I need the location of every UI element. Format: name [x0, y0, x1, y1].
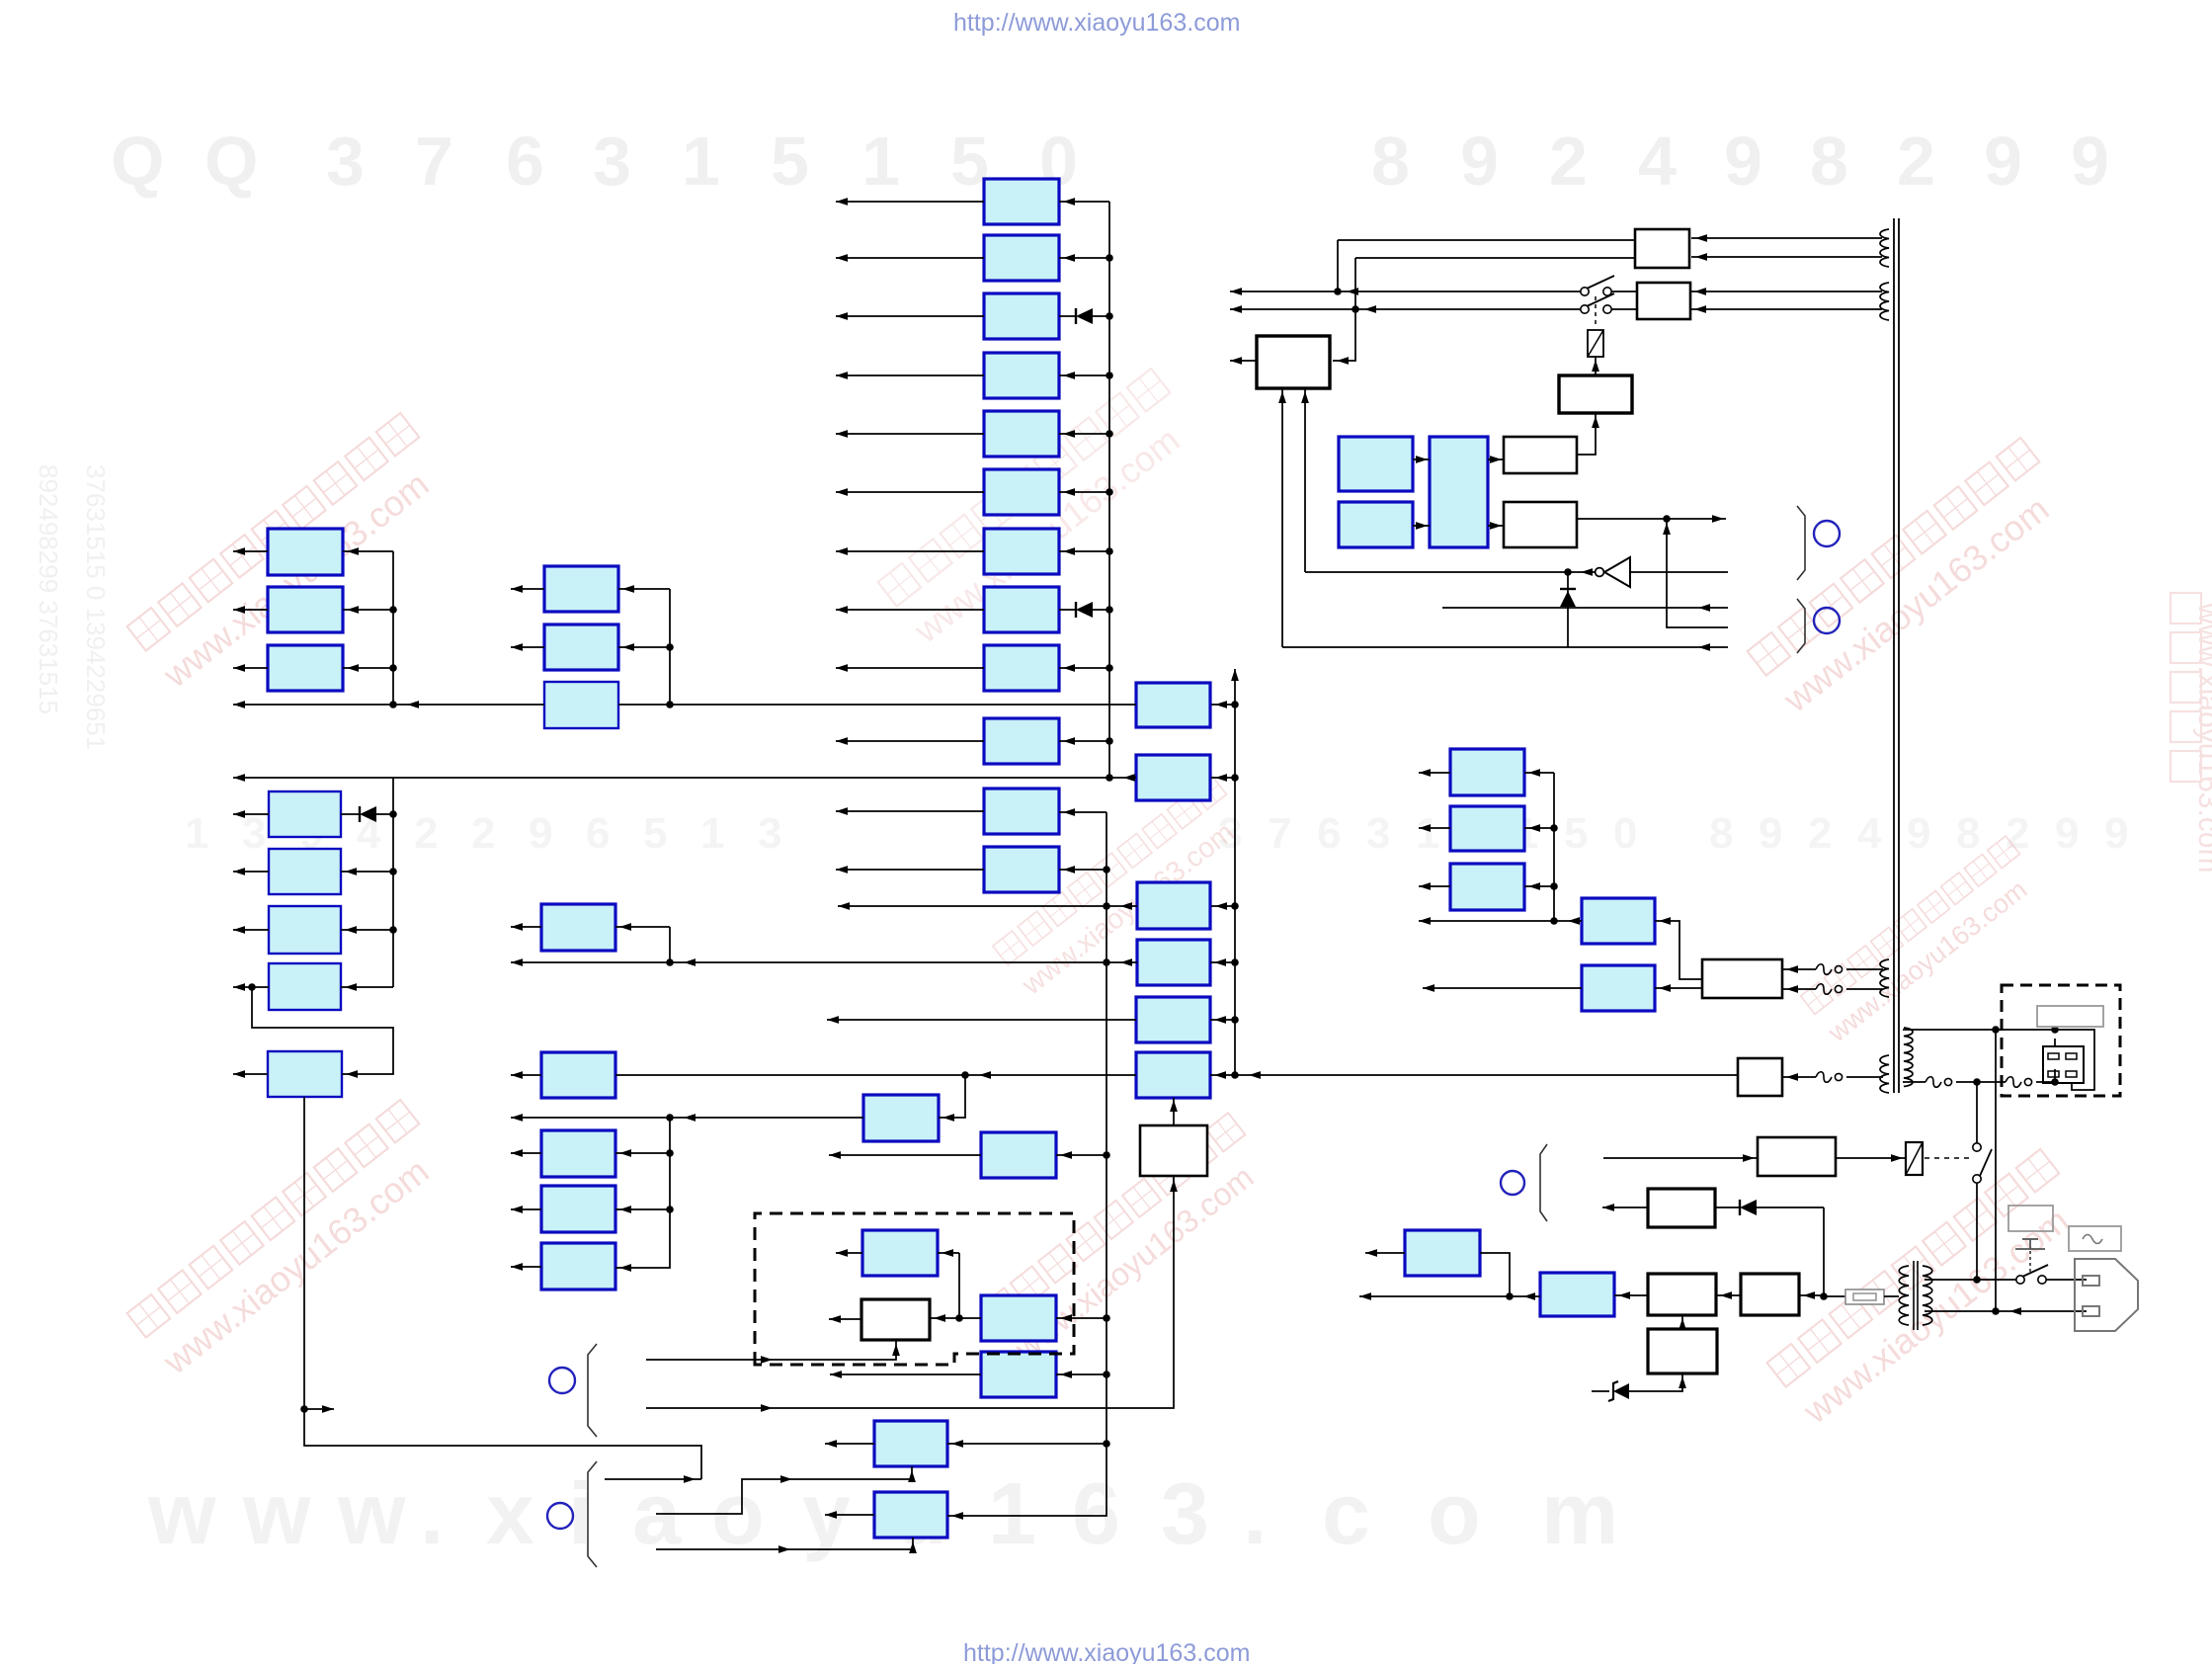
wire B input y261 — [1059, 257, 1109, 259]
arrowhead Y2 feed flow — [778, 1545, 790, 1553]
connector circle con4 — [547, 1503, 573, 1529]
wire R1 input — [618, 588, 670, 590]
svg-text:.: . — [1243, 1464, 1267, 1562]
wire F1 line a1 — [1782, 968, 1816, 970]
arrowhead TR2 in b — [1694, 305, 1706, 313]
plug ACP — [2075, 1259, 2138, 1331]
wire W1 output — [829, 1318, 861, 1320]
arrowhead W1 out — [829, 1315, 841, 1323]
wire line261 — [1355, 257, 1635, 259]
arrowhead TB in — [1592, 416, 1599, 428]
box D1 — [1648, 1189, 1715, 1227]
wire B11 output — [836, 810, 984, 812]
block Y2 — [874, 1492, 947, 1538]
wire B input y380 — [1059, 374, 1109, 376]
diode D-B3 — [1076, 308, 1093, 324]
wire G1-G2 — [1716, 1294, 1741, 1296]
wire bus1 left — [233, 704, 544, 706]
arrowhead F1 in b — [1786, 985, 1798, 993]
block N6 — [1136, 1052, 1210, 1098]
junction bus4-V2 — [1103, 958, 1110, 966]
transformer core T1 — [1894, 218, 1899, 1093]
svg-text:4: 4 — [1857, 809, 1882, 858]
arrowhead busM flow — [684, 1114, 696, 1122]
connector circle con2 — [1814, 608, 1840, 633]
wire bus4 — [511, 961, 1137, 963]
wire Q1 output — [829, 1154, 981, 1156]
arrowhead T3 in — [1528, 882, 1540, 890]
wire B11 input — [1059, 811, 1106, 813]
wire G2-V6 — [1799, 1294, 1824, 1296]
wire B10 output — [836, 740, 984, 742]
switch contact SW2 top — [1973, 1143, 1981, 1151]
connector circle con3 — [549, 1368, 575, 1393]
connector CN2 pin1 — [2048, 1053, 2059, 1059]
arrowhead Rb in — [1659, 984, 1671, 992]
wire N6-U1 link — [1173, 1098, 1175, 1125]
junction V1 y439 — [1106, 430, 1113, 438]
wire VT riser — [1553, 773, 1555, 921]
connector circle con1 — [1814, 521, 1840, 546]
arrowhead B in y498 — [1063, 488, 1075, 496]
arrowhead N6 bottom in — [1170, 1100, 1178, 1112]
connector CN2 pin3 — [2048, 1071, 2059, 1077]
wire N3 right link — [1211, 905, 1235, 907]
wire S0 output — [1365, 1252, 1405, 1254]
junction W1 node — [955, 1314, 963, 1322]
svg-text:1: 1 — [1416, 809, 1439, 858]
svg-text:1: 1 — [861, 123, 900, 200]
wire Ra input link — [1655, 921, 1702, 979]
wire N1 right link — [1211, 704, 1235, 706]
wire B12 output — [836, 869, 984, 871]
svg-text:8: 8 — [1709, 809, 1733, 858]
wire busT — [1419, 920, 1582, 922]
wire G3-G1 link — [1681, 1315, 1683, 1329]
box WM — [1257, 336, 1330, 388]
junction V2-B12 — [1103, 866, 1110, 874]
junction V3-N3 — [1231, 902, 1239, 910]
junction V3-N4 — [1231, 958, 1239, 966]
wire SR feed riser — [939, 1075, 965, 1118]
junction V1 y498 — [1106, 488, 1113, 496]
arrowhead L1 in — [347, 547, 359, 555]
wire pri bottom c — [2036, 1069, 2055, 1082]
arrowhead S0 out — [1365, 1249, 1377, 1257]
wire Y2 output — [825, 1514, 874, 1516]
wire M2 output — [511, 1074, 541, 1076]
wire SW1b-TR2 — [1611, 308, 1637, 310]
wire RL output — [1836, 1157, 1906, 1159]
block B7 — [984, 529, 1059, 574]
arrowhead WA in — [1490, 456, 1502, 463]
arrowhead C2 in a — [1416, 456, 1428, 463]
wire V7 drop — [1995, 1030, 1997, 1311]
arrowhead B in y380 — [1063, 372, 1075, 379]
block L6 — [269, 906, 341, 954]
arrowhead T3 out — [1419, 882, 1431, 890]
arrowhead CC in — [942, 1249, 953, 1257]
arrowhead X2 in — [1060, 1371, 1072, 1378]
wire R2 input — [618, 646, 670, 648]
arrowhead S1 in — [1618, 1291, 1630, 1299]
wire S1-G1 — [1614, 1294, 1648, 1296]
arrowhead T2 out — [1419, 824, 1431, 832]
block N3 — [1137, 882, 1210, 929]
wire CN2 wire2 — [2072, 1050, 2094, 1090]
wire F1 line b2 — [1846, 988, 1883, 990]
arrowhead Y2 bottom in — [909, 1541, 917, 1553]
wire zener line — [1592, 1390, 1609, 1392]
wire T3 output — [1419, 885, 1450, 887]
block L2 — [268, 587, 343, 632]
wire D1 output — [1602, 1206, 1648, 1208]
wire diode drop — [1567, 572, 1569, 647]
connector pair pri fuse b — [2006, 1077, 2032, 1088]
arrowhead B in y439 — [1063, 430, 1075, 438]
arrowhead B in y558 — [1063, 547, 1075, 555]
wire VR riser — [669, 589, 671, 705]
box WB — [1504, 502, 1577, 547]
wire L4 input b — [376, 813, 393, 815]
arrowhead N1 in — [1215, 701, 1227, 708]
arrowhead Q1 in — [1060, 1151, 1072, 1159]
wire VM3 riser — [615, 1118, 670, 1268]
junction V6 node — [1820, 1292, 1828, 1300]
arrowhead V3 top — [1231, 669, 1239, 681]
arrowhead B10 out — [836, 737, 848, 745]
arrowhead R1 out — [511, 585, 523, 593]
arrowhead line313 end — [1230, 305, 1242, 313]
block M4 — [541, 1186, 615, 1232]
svg-text:9: 9 — [2071, 123, 2109, 200]
block M2 — [541, 1052, 615, 1098]
dashed enclosure PSU — [755, 1213, 1074, 1365]
winding T2 pri — [1899, 1266, 1909, 1325]
arrowhead B9 out — [836, 664, 848, 672]
junction V3-N1 — [1231, 701, 1239, 708]
wire bus5 right — [1210, 1074, 1738, 1076]
junction VR-bus1 — [666, 701, 674, 708]
svg-text:9: 9 — [1759, 809, 1782, 858]
arrowhead W1 feed flow — [761, 1356, 773, 1364]
arrowhead WM in b — [1301, 391, 1309, 403]
arrowhead M4 out — [511, 1206, 523, 1213]
arrowhead RL in — [1743, 1154, 1755, 1162]
arrowhead M1 in — [619, 923, 631, 931]
junction VL2-L5 — [389, 868, 397, 875]
switch contact SW2 bottom — [1973, 1175, 1981, 1183]
wire CC output — [836, 1252, 862, 1254]
arrowhead N3 in — [1215, 902, 1227, 910]
watermark vertical left-edge — [34, 464, 111, 750]
arrowhead busT end — [1419, 917, 1431, 925]
brace con3 — [588, 1344, 597, 1437]
box F2 — [1738, 1058, 1782, 1096]
brace con5 — [1540, 1144, 1547, 1221]
block R3 — [544, 682, 618, 728]
block M3 — [541, 1130, 615, 1177]
arrowhead B6 out — [836, 488, 848, 496]
watermark pink right-edge — [2171, 593, 2212, 873]
block N2 — [1136, 755, 1210, 800]
watermark digits mid-left — [185, 809, 781, 858]
arrowhead TR1 in a — [1695, 234, 1707, 242]
wire N2 right link — [1211, 777, 1235, 779]
junction VT-T3 — [1550, 882, 1558, 890]
junction V1-bus2 — [1106, 774, 1113, 782]
brace con4 — [588, 1461, 597, 1567]
box F1 — [1702, 959, 1782, 998]
svg-text:3: 3 — [1161, 1464, 1209, 1562]
wire SW3-plug — [2046, 1279, 2087, 1281]
winding T1 sec d — [1880, 1055, 1889, 1093]
wire N5 row — [827, 1019, 1136, 1021]
arrowhead M3 in — [619, 1149, 631, 1157]
switch blade SW1a — [1587, 276, 1614, 289]
arrowhead line615 flow — [1698, 604, 1710, 612]
switch contact SW3 R — [2038, 1276, 2046, 1284]
wire B8 input b — [1093, 609, 1109, 611]
wire pri bottom a — [1903, 1081, 1925, 1083]
watermark pink wm6 — [981, 1113, 1275, 1367]
switch contact SW1b L — [1581, 305, 1589, 313]
arrowhead rc in — [1592, 360, 1599, 372]
connector pair F1 pair a — [1816, 964, 1843, 975]
switch contact SW1a L — [1581, 288, 1589, 295]
arrowhead T1 out — [1419, 769, 1431, 777]
junction busM tap — [666, 1114, 674, 1122]
junction L7 tap — [248, 983, 256, 991]
arrowhead L6 out — [233, 926, 245, 934]
wire inverter input line — [1630, 571, 1728, 573]
wire fuse line — [1824, 1295, 1845, 1297]
watermark digits mid-right — [1218, 809, 2128, 858]
switch contact SW3 L — [2016, 1276, 2024, 1284]
block C2 — [1430, 437, 1488, 547]
wire WA-TB — [1577, 413, 1596, 455]
switch blade SW2 — [1980, 1149, 1992, 1176]
arrowhead M5 in — [619, 1264, 631, 1272]
wire V4 riser — [1667, 519, 1728, 627]
svg-text:2: 2 — [471, 809, 495, 858]
wire TR1 line a — [1691, 237, 1882, 239]
arrowhead B7 out — [836, 547, 848, 555]
wire V6 drop — [1823, 1207, 1825, 1296]
arrowhead Y1 feed flow — [780, 1475, 792, 1483]
wire bus3 — [838, 905, 1137, 907]
wire B3 input a — [1059, 315, 1076, 317]
junction V2-X2 — [1103, 1371, 1110, 1378]
watermark pink wm5 — [992, 775, 1255, 1001]
block L1 — [268, 529, 343, 575]
svg-text:9: 9 — [529, 809, 552, 858]
arrowhead bus1 end — [233, 701, 245, 708]
wire U1 feed — [646, 1176, 1174, 1408]
svg-text:3: 3 — [593, 123, 631, 200]
wire F2 line 2 — [1846, 1076, 1883, 1078]
block B6 — [984, 469, 1059, 515]
junction V1 y558 — [1106, 547, 1113, 555]
block CC — [862, 1230, 938, 1276]
wire L1 input — [343, 550, 393, 552]
block L5 — [269, 849, 341, 894]
wire V5a drop — [1976, 1082, 1978, 1143]
wire Q1 input — [1056, 1154, 1106, 1156]
relay coil symbol rc — [1588, 330, 1603, 357]
wire B input y558 — [1059, 550, 1109, 552]
wire inverter out line — [1305, 571, 1596, 573]
wire line243 — [1338, 239, 1635, 241]
arrowhead Q1 out — [829, 1151, 841, 1159]
svg-text:892498299 37631515: 892498299 37631515 — [34, 464, 63, 714]
arrowhead TR2 in a — [1694, 288, 1706, 295]
junction V3-N5 — [1231, 1016, 1239, 1024]
transformer core T2 — [1914, 1261, 1918, 1330]
arrowhead B3 out — [836, 312, 848, 320]
svg-text:8: 8 — [1956, 809, 1980, 858]
block X2 — [981, 1352, 1056, 1397]
wire pri bottom b — [1956, 1081, 2006, 1083]
arrowhead M5 out — [511, 1263, 523, 1271]
connector CN2 body — [2043, 1046, 2084, 1083]
winding T1 pri — [1904, 1028, 1913, 1087]
arrowhead T1 in — [1528, 769, 1540, 777]
arrowhead branch stub — [322, 1405, 334, 1413]
wire T3 input — [1524, 885, 1554, 887]
arrowhead M4 in — [619, 1206, 631, 1213]
watermark pink wm4 — [126, 1100, 454, 1382]
arrowhead B4 out — [836, 372, 848, 379]
wire Y1 bottom feed — [656, 1466, 912, 1514]
arrowhead stub flow — [684, 1475, 696, 1483]
arrowhead B10 in — [1063, 737, 1075, 745]
svg-text:3: 3 — [1366, 809, 1390, 858]
arrowhead L6 in — [345, 926, 357, 934]
box RL — [1758, 1137, 1836, 1176]
wire L3 input — [343, 667, 393, 669]
wire B1 input — [1059, 201, 1109, 203]
junction WB node — [1663, 515, 1671, 523]
wire L2 output — [233, 609, 268, 611]
arrowhead L7 in — [345, 983, 357, 991]
svg-text:2: 2 — [1549, 123, 1588, 200]
wire WM output — [1230, 360, 1257, 362]
junction V1 y676 — [1106, 664, 1113, 672]
box TR1 — [1635, 229, 1689, 268]
block S0 — [1405, 1230, 1480, 1276]
arrowhead B12 in — [1063, 866, 1075, 874]
arrowhead S bus end — [1359, 1292, 1371, 1300]
svg-text:4: 4 — [1638, 123, 1677, 200]
arrowhead LV bottom flow — [2009, 1307, 2021, 1315]
wire B9 output — [836, 667, 984, 669]
junction pri top tap2 — [2051, 1026, 2059, 1034]
brace con2 — [1797, 599, 1805, 653]
wire C2-WB — [1488, 525, 1504, 527]
wire L7-L8 link — [252, 987, 393, 1074]
block X1 — [981, 1295, 1056, 1341]
wire M5 output — [511, 1266, 541, 1268]
arrowhead B12 out — [836, 866, 848, 874]
svg-text:7: 7 — [415, 123, 453, 200]
block B8 — [984, 587, 1059, 632]
wire B2 output — [836, 257, 984, 259]
wire X2 input — [1056, 1373, 1106, 1375]
junction V1 y617 — [1106, 606, 1113, 614]
arrowhead M3 out — [511, 1149, 523, 1157]
wire L8 branch stub — [304, 1408, 334, 1410]
junction VT-busT — [1550, 917, 1558, 925]
arrowhead L3 out — [233, 664, 245, 672]
block N5 — [1136, 997, 1210, 1042]
wire L4 output — [233, 813, 269, 815]
arrowhead B in y676 — [1063, 664, 1075, 672]
arrowhead inv out flow — [1581, 568, 1593, 576]
wire R2 output — [511, 646, 544, 648]
wire V2 riser — [947, 812, 1106, 1516]
wire CC input — [938, 1252, 959, 1254]
wire bus5 left — [615, 1074, 1136, 1076]
wire T2 output — [1419, 827, 1450, 829]
arrowhead line313 flow — [1364, 305, 1376, 313]
svg-text:3: 3 — [242, 809, 266, 858]
arrowhead CC out — [836, 1249, 848, 1257]
wire T1 input — [1524, 772, 1554, 774]
wire stub to Y1 path — [605, 1478, 701, 1480]
junction bus5 tap — [961, 1071, 969, 1079]
block L3 — [268, 645, 343, 691]
arrowhead N6 in — [1214, 1071, 1226, 1079]
arrowhead busM end — [511, 1114, 523, 1122]
watermark pink wm2 — [877, 369, 1205, 651]
wire L7 input — [341, 986, 393, 988]
block T2 — [1450, 806, 1524, 851]
wire M4 input — [615, 1208, 670, 1210]
diode D-D1 — [1740, 1200, 1757, 1215]
junction V2-Q1 — [1103, 1151, 1110, 1159]
junction line313 tap — [1352, 305, 1359, 313]
junction V3-N6 — [1231, 1071, 1239, 1079]
wire bus1 right — [618, 704, 1136, 706]
connector pair pri fuse a — [1925, 1077, 1952, 1088]
block L8 — [268, 1051, 342, 1097]
wire line313 left — [1230, 308, 1581, 310]
arrowhead WB in — [1490, 522, 1502, 530]
switch blade SW3 — [2022, 1265, 2048, 1277]
svg-text:6: 6 — [1072, 1464, 1120, 1562]
junction VM3-M3 — [666, 1149, 674, 1157]
block B4 — [984, 353, 1059, 398]
arrowhead M2 out — [511, 1071, 523, 1079]
arrowhead L2 out — [233, 606, 245, 614]
wire CN2 wire — [2054, 1039, 2056, 1046]
wire M1 output — [511, 926, 541, 928]
svg-text:9: 9 — [1907, 809, 1930, 858]
arrowhead contact in — [1891, 1154, 1903, 1162]
junction VL-L2 — [389, 606, 397, 614]
wire B5 output — [836, 433, 984, 435]
arrowhead bus5 flow2 — [1249, 1071, 1261, 1079]
power button — [2015, 1239, 2045, 1249]
wire W1 input — [930, 1317, 981, 1319]
svg-text:8: 8 — [1371, 123, 1410, 200]
wire N5 right link — [1210, 1019, 1235, 1021]
wire L2 input — [343, 609, 393, 611]
arrowhead bus3 flow — [1120, 902, 1132, 910]
arrowhead B11 out — [836, 807, 848, 815]
svg-text:5: 5 — [643, 809, 667, 858]
